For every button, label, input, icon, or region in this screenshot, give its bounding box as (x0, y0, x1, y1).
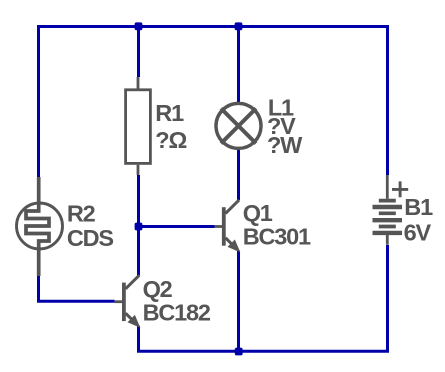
wire: lamp L1 bottom to Q1 collector (237, 149, 240, 200)
photoresistor R2 (17, 177, 63, 276)
transistor Q1 base bar (222, 207, 226, 246)
transistor Q1 (215, 200, 240, 251)
svg-text:R1: R1 (155, 100, 184, 126)
wire: top rail to R1 top (137, 25, 140, 77)
transistor Q2 emitter arrow (129, 316, 139, 326)
node: junction bottom rail / Q1 emitter (235, 348, 243, 356)
svg-text:BC182: BC182 (143, 299, 211, 325)
transistor Q2 base pin (115, 300, 123, 303)
lamp L1 cross (221, 108, 256, 143)
svg-text:?W: ?W (267, 132, 303, 158)
transistor Q1 emitter (226, 238, 234, 246)
wire: node A to Q1 base (139, 225, 215, 228)
svg-text:R2: R2 (67, 201, 96, 227)
svg-text:Q1: Q1 (243, 200, 273, 226)
svg-text:CDS: CDS (67, 225, 114, 251)
transistor Q1 base pin (215, 225, 223, 228)
wire: R1 bottom through node A down to Q2 collector (137, 175, 140, 276)
battery B1 (373, 175, 409, 245)
transistor Q2 base bar (122, 283, 126, 322)
node: junction top rail / R1 branch (135, 22, 143, 30)
lamp L1 circle (216, 103, 261, 148)
wire: Q2 emitter drop + bottom rail + right rail up to battery minus (139, 245, 388, 351)
svg-text:Q2: Q2 (143, 276, 173, 302)
wire: Q1 emitter drop to bottom rail (237, 251, 240, 352)
transistor Q2 (115, 275, 140, 326)
transistor Q2 emitter (126, 313, 134, 321)
node A: junction R1 bottom / Q1 base / Q2 collector (135, 223, 143, 231)
transistor Q2 collector (126, 275, 140, 289)
svg-text:?Ω: ?Ω (155, 127, 186, 153)
resistor R1 body (126, 90, 151, 164)
transistor Q1 emitter arrow (229, 241, 239, 251)
wire: top rail to lamp L1 top (237, 25, 240, 103)
svg-text:6V: 6V (404, 219, 432, 245)
wire: left rail + top rail + right rail down to battery (39, 27, 388, 178)
transistor Q1 collector (226, 200, 240, 214)
photoresistor R2 circle (17, 203, 63, 249)
resistor R1 pins (137, 77, 140, 175)
battery B1 long plates (373, 207, 403, 233)
node: junction top rail / lamp branch (235, 22, 243, 30)
photoresistor R2 pins and serpentine element (26, 177, 49, 276)
lamp L1 (216, 103, 261, 148)
svg-text:B1: B1 (404, 194, 433, 220)
resistor R1 (126, 77, 151, 175)
wire: left rail below R2 and horizontal run to Q2 base (39, 276, 115, 301)
battery B1 short plates (379, 201, 396, 227)
svg-text:BC301: BC301 (243, 224, 311, 250)
battery B1 plus sign (392, 181, 408, 197)
battery B1 pins (386, 175, 389, 245)
